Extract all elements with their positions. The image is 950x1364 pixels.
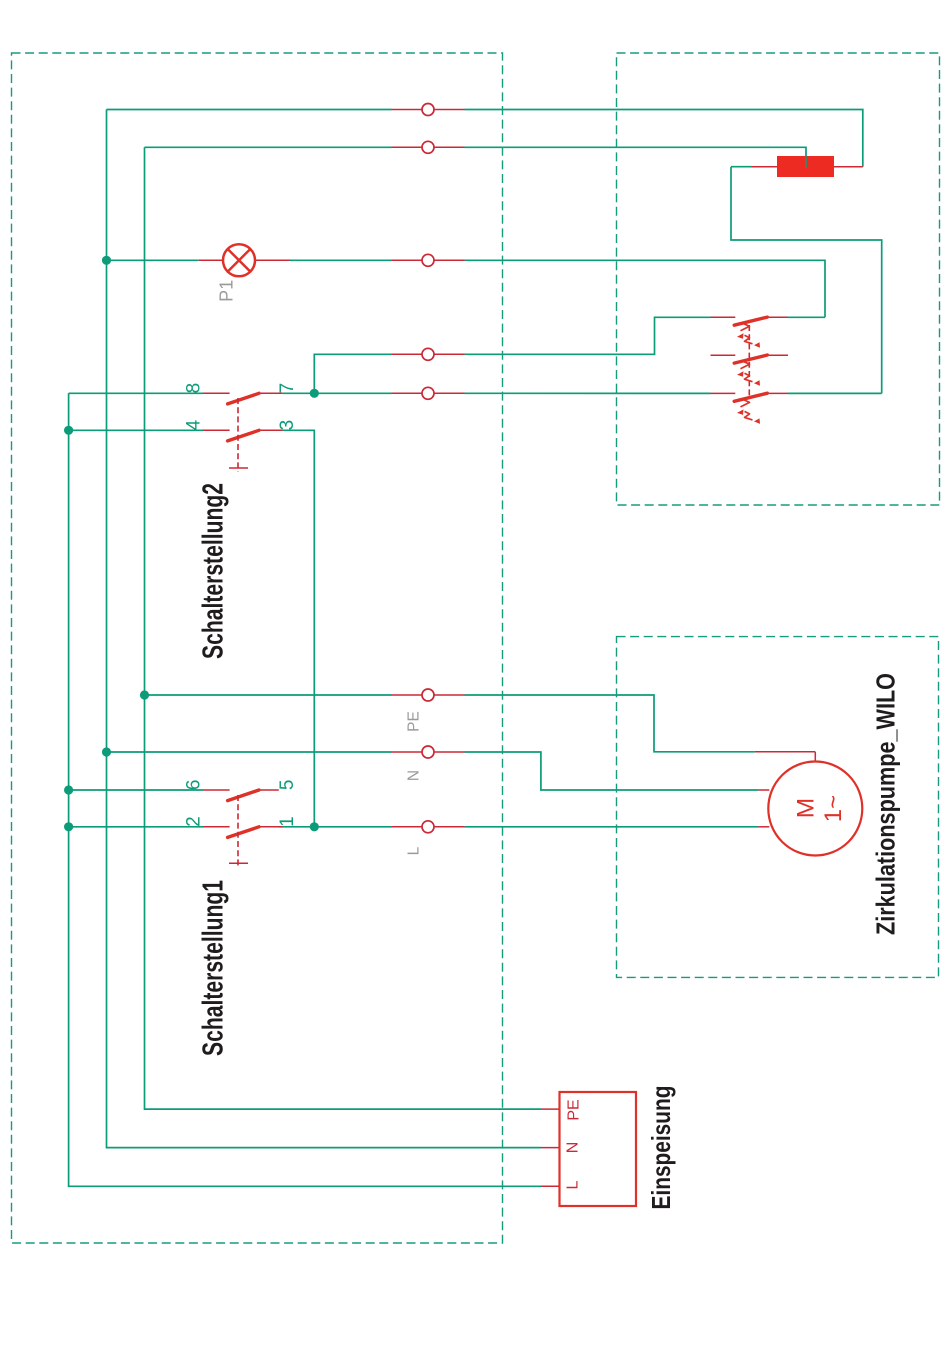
svg-text:P1: P1 <box>217 280 237 302</box>
svg-text:N: N <box>406 770 423 781</box>
svg-text:6: 6 <box>184 780 205 791</box>
svg-text:L: L <box>406 846 423 855</box>
svg-text:Einspeisung: Einspeisung <box>646 1086 676 1210</box>
svg-text:Schalterstellung1: Schalterstellung1 <box>198 880 230 1056</box>
svg-text:7: 7 <box>277 383 298 394</box>
svg-text:5: 5 <box>277 780 298 791</box>
svg-text:PE: PE <box>566 1099 583 1120</box>
svg-text:M: M <box>793 798 820 818</box>
svg-text:Zirkulationspumpe_WILO: Zirkulationspumpe_WILO <box>871 673 901 935</box>
svg-text:1: 1 <box>277 816 298 827</box>
svg-text:N: N <box>565 1142 582 1154</box>
svg-text:3: 3 <box>277 420 298 431</box>
svg-text:1~: 1~ <box>820 795 847 822</box>
svg-text:2: 2 <box>184 816 205 827</box>
svg-text:Schalterstellung2: Schalterstellung2 <box>198 483 230 659</box>
svg-text:PE: PE <box>406 711 423 732</box>
svg-text:4: 4 <box>184 419 205 430</box>
svg-text:L: L <box>565 1180 582 1189</box>
svg-text:8: 8 <box>184 383 205 394</box>
